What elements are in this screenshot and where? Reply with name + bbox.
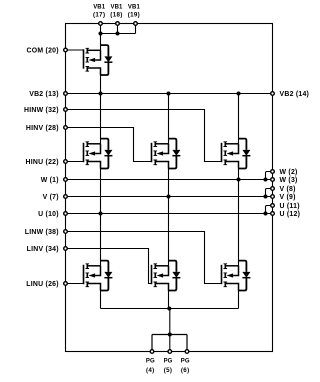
svg-text:(6): (6) [181, 367, 190, 374]
svg-text:(5): (5) [164, 367, 173, 374]
svg-text:VB2 (13): VB2 (13) [29, 91, 59, 98]
terminal V (7) [64, 195, 68, 199]
wire: PG spreader right leg to PG(6) [186, 335, 188, 352]
svg-text:LINU (26): LINU (26) [26, 281, 59, 288]
svg-text:HINW (32): HINW (32) [24, 107, 59, 114]
svg-text:PG: PG [146, 358, 155, 364]
wire: U phase line [66, 213, 273, 215]
terminal HINW (32) [64, 108, 68, 112]
terminal HINU (22) [64, 160, 68, 164]
wire: HINW route to Q3 gate [66, 110, 222, 162]
wire: VB1(18) stub down [117, 24, 119, 34]
terminal U (11) [271, 204, 275, 208]
wire: PG bus center drop to PG(5) [169, 309, 171, 352]
svg-text:U (10): U (10) [38, 211, 59, 218]
terminal U (12) [271, 212, 275, 216]
wire: W(2) jumper to W line [266, 172, 271, 180]
transistor Q2 (V high-side) with body diode [152, 139, 181, 169]
wire: Q6 drain down to PG bus [238, 290, 240, 309]
terminal PG (4) [150, 350, 154, 354]
junction dot VB2/Q3 source [237, 92, 241, 96]
terminal PG (5) [168, 350, 172, 354]
wire: VB1 rail to Q7 source [100, 34, 102, 51]
svg-text:HINU (22): HINU (22) [26, 159, 59, 166]
svg-text:VB2 (14): VB2 (14) [280, 91, 310, 98]
svg-text:VB1: VB1 [111, 4, 124, 10]
terminal LINU (26) [64, 282, 68, 286]
wire: VB2 rail to Q1 source [100, 94, 102, 144]
wire: PG spreader bar [152, 334, 187, 336]
svg-text:COM (20): COM (20) [27, 47, 59, 54]
wire: Q2 drain down to V line and Q5 source [168, 168, 170, 266]
junction dot W line / terminal jumper [264, 178, 268, 182]
transistor Q6 (W low-side) with body diode [222, 261, 251, 291]
wire: V phase line [66, 196, 273, 198]
terminal LINW (38) [64, 230, 68, 234]
svg-text:(19): (19) [128, 11, 140, 18]
junction dot PG spreader center [168, 333, 172, 337]
junction dot VB2/Q7-Q1 node [99, 92, 103, 96]
junction dot PG bus center [167, 307, 171, 311]
wire: W phase line [66, 179, 273, 181]
svg-text:VB1: VB1 [93, 4, 106, 10]
wire: VB2 rail to Q2 source [168, 94, 170, 144]
wire: U(11) jumper to U line [266, 206, 271, 214]
terminal VB1 (19) [134, 22, 138, 26]
terminal LINV (34) [64, 247, 68, 251]
junction dot W line / W column [237, 178, 241, 182]
terminal W (3) [271, 178, 275, 182]
wire: HINV route to Q2 gate [66, 128, 152, 162]
wire: Q5 drain down to PG bus [168, 290, 170, 309]
wire: V(8) jumper to V line [266, 189, 271, 197]
svg-text:W (2): W (2) [280, 169, 298, 176]
wire: Q1 drain down to U line and Q4 source [100, 168, 102, 266]
transistor Q7 (bootstrap FET, COM gate) with body diode [84, 45, 113, 75]
terminal W (2) [271, 170, 275, 174]
transistor Q3 (W high-side) with body diode [222, 139, 251, 169]
junction dot VB2/Q2 source [167, 92, 171, 96]
junction dot U line / U column [99, 212, 103, 216]
transistor Q4 (U low-side) with body diode [84, 261, 113, 291]
wire: VB2 rail [66, 93, 273, 95]
terminal V (9) [271, 195, 275, 199]
svg-text:U (11): U (11) [280, 203, 300, 210]
terminal W (1) [64, 178, 68, 182]
terminal VB1 (18) [116, 22, 120, 26]
wire: LINU to Q4 gate [66, 283, 84, 285]
svg-text:V (7): V (7) [43, 194, 59, 201]
svg-text:V (8): V (8) [280, 186, 296, 193]
terminal VB2 (13) [64, 92, 68, 96]
wire: VB1 common rail [101, 33, 136, 35]
transistor Q5 (V low-side) with body diode [152, 261, 181, 291]
junction dot VB1 rail at x=100.5 [99, 32, 103, 36]
svg-text:LINV (34): LINV (34) [27, 246, 59, 253]
wire: Q7 drain down to VB2 rail [100, 75, 102, 94]
terminal COM (20) [64, 48, 68, 52]
svg-text:HINV (28): HINV (28) [26, 125, 59, 132]
svg-text:W (1): W (1) [41, 177, 59, 184]
package outline box [66, 24, 273, 352]
svg-text:LINW (38): LINW (38) [25, 229, 59, 236]
svg-text:(4): (4) [146, 367, 155, 374]
svg-text:PG: PG [164, 358, 173, 364]
terminal HINV (28) [64, 126, 68, 130]
svg-text:(18): (18) [110, 11, 122, 18]
terminal U (10) [64, 212, 68, 216]
wire: VB1(19) stub down [135, 24, 137, 34]
wire: LINW route to Q6 gate [66, 232, 222, 284]
svg-text:VB1: VB1 [128, 4, 141, 10]
junction dot V line / terminal jumper [264, 195, 268, 199]
wire: PG spreader left leg to PG(4) [151, 335, 153, 352]
wire: COM to Q7 gate [66, 49, 84, 51]
wire: PG bus [101, 308, 239, 310]
terminal PG (6) [185, 350, 189, 354]
wire: VB1(17) stub down [100, 24, 102, 34]
wire: Q3 drain down to W line and Q6 source [238, 168, 240, 266]
svg-text:W (3): W (3) [280, 177, 298, 184]
wire: HINU to Q1 gate [66, 161, 84, 163]
svg-text:PG: PG [181, 358, 190, 364]
junction dot V line / V column [167, 195, 171, 199]
wire: VB2 rail to Q3 source [238, 94, 240, 144]
terminal VB2 (14) [271, 92, 275, 96]
svg-text:(17): (17) [93, 11, 105, 18]
junction dot U line / terminal jumper [264, 212, 268, 216]
svg-text:V (9): V (9) [280, 194, 296, 201]
wire: Q4 drain down to PG bus [100, 290, 102, 309]
wire: LINV route to Q5 gate [66, 249, 152, 284]
terminal V (8) [271, 187, 275, 191]
terminal VB1 (17) [99, 22, 103, 26]
svg-text:U (12): U (12) [280, 211, 301, 218]
junction dot VB1 rail at x=117.5 [116, 32, 120, 36]
transistor Q1 (U high-side) with body diode [84, 139, 113, 169]
